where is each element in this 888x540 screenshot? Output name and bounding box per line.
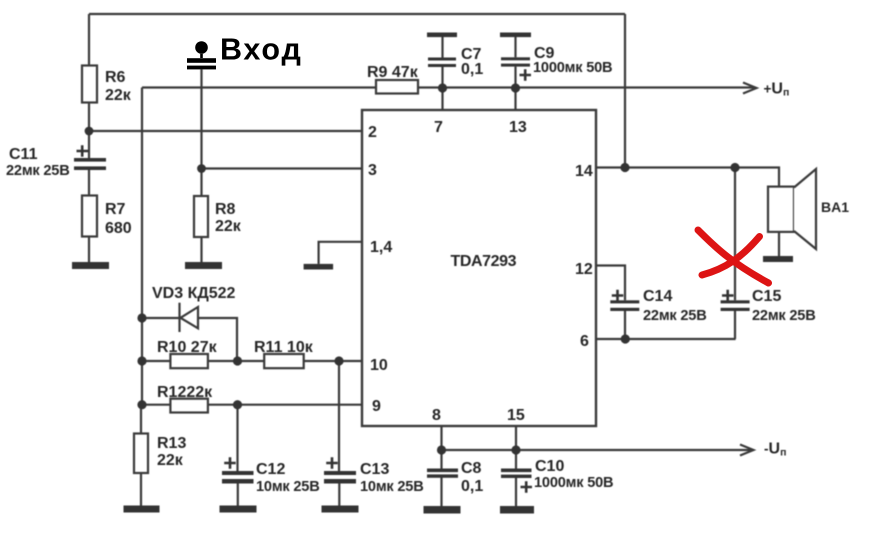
svg-text:C12: C12 [256, 461, 285, 478]
svg-text:10мк 25В: 10мк 25В [256, 479, 320, 495]
svg-text:C11: C11 [9, 146, 38, 163]
svg-text:10: 10 [370, 357, 388, 374]
svg-text:0,1: 0,1 [461, 61, 483, 78]
svg-text:R10 27к: R10 27к [157, 339, 218, 356]
svg-text:15: 15 [507, 407, 525, 424]
svg-text:C13: C13 [360, 461, 389, 478]
svg-text:R1222к: R1222к [157, 384, 213, 401]
svg-text:22к: 22к [105, 87, 132, 104]
svg-text:R13: R13 [157, 435, 186, 452]
svg-text:22мк 25В: 22мк 25В [752, 308, 816, 324]
svg-text:13: 13 [509, 119, 527, 136]
svg-text:R7: R7 [105, 201, 126, 218]
svg-text:1000мк 50В: 1000мк 50В [534, 475, 613, 491]
svg-text:C8: C8 [461, 460, 482, 477]
svg-text:10мк 25В: 10мк 25В [360, 479, 424, 495]
svg-text:R6: R6 [105, 69, 126, 86]
svg-text:22мк 25В: 22мк 25В [6, 163, 70, 179]
svg-text:6: 6 [580, 333, 589, 350]
svg-text:9: 9 [372, 398, 381, 415]
svg-text:0,1: 0,1 [461, 478, 483, 495]
svg-text:3: 3 [368, 162, 377, 179]
svg-text:C10: C10 [535, 458, 564, 475]
svg-text:2: 2 [368, 124, 377, 141]
svg-text:7: 7 [434, 119, 443, 136]
svg-text:1000мк 50В: 1000мк 50В [533, 60, 612, 76]
svg-text:R11 10к: R11 10к [254, 339, 314, 356]
svg-text:22к: 22к [157, 452, 184, 469]
svg-text:Вход: Вход [220, 33, 303, 67]
svg-text:C14: C14 [643, 288, 672, 305]
svg-text:22к: 22к [215, 218, 242, 235]
svg-text:R9 47к: R9 47к [367, 64, 419, 81]
svg-text:TDA7293: TDA7293 [451, 253, 517, 270]
svg-text:1,4: 1,4 [370, 239, 392, 256]
svg-text:VD3 КД522: VD3 КД522 [152, 285, 236, 302]
svg-text:8: 8 [432, 407, 441, 424]
svg-text:14: 14 [575, 163, 593, 180]
svg-text:680: 680 [105, 220, 132, 237]
svg-text:BA1: BA1 [821, 199, 849, 215]
svg-text:C15: C15 [752, 288, 781, 305]
svg-text:22мк 25В: 22мк 25В [643, 308, 707, 324]
svg-text:R8: R8 [215, 201, 236, 218]
svg-text:12: 12 [575, 261, 593, 278]
